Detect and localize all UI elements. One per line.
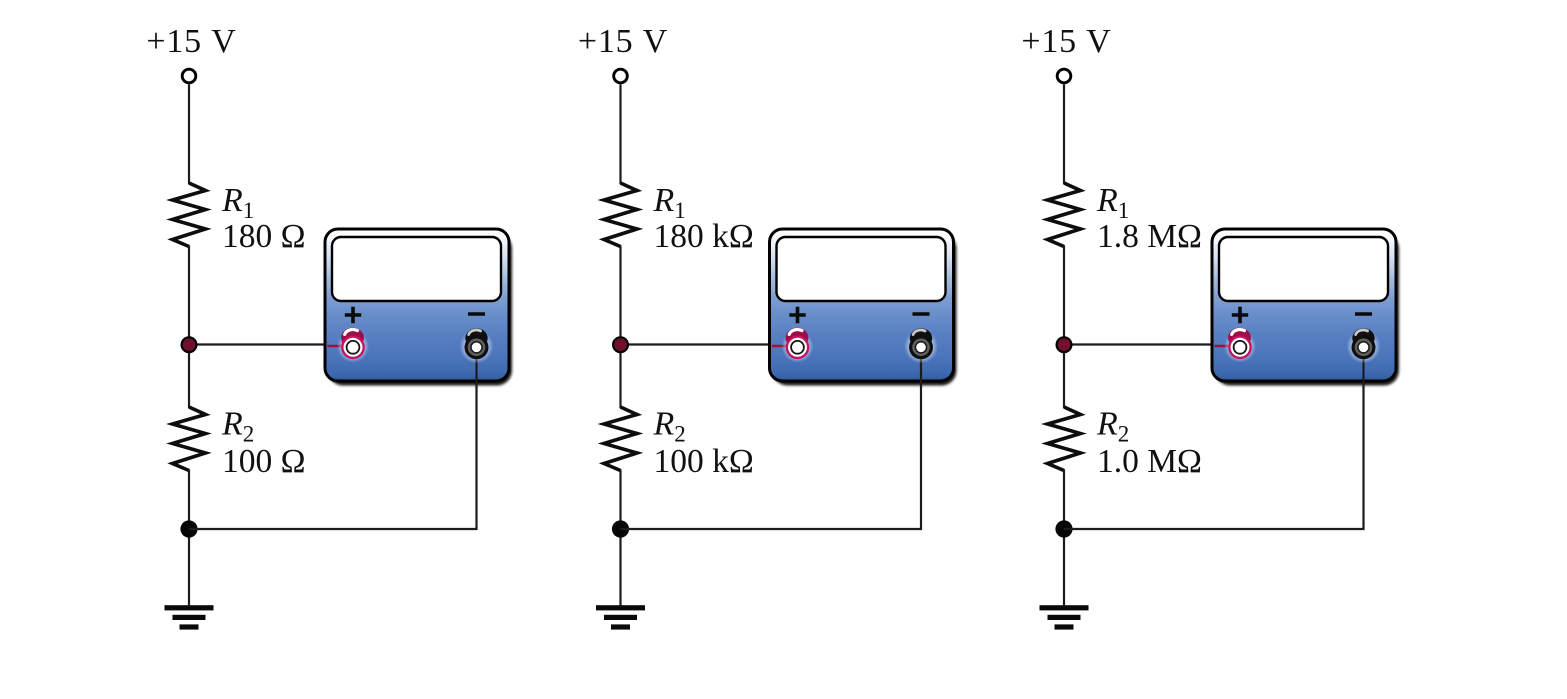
wire ground return, voltmeter minus lead to ground node (circuit 1) xyxy=(189,350,477,529)
wire R1 to node A (circuit 3) xyxy=(1063,246,1065,345)
wire node A into plus terminal, red lead (circuit 2) xyxy=(772,345,798,347)
svg-text:100 Ω: 100 Ω xyxy=(222,443,306,480)
junction ground node (circuit 3) xyxy=(1055,520,1072,537)
terminal +15 V (circuit 2) xyxy=(614,69,628,83)
wire node A to R2 (circuit 2) xyxy=(619,345,621,408)
voltmeter U2 plus marking xyxy=(789,307,805,323)
wire R1 to node A (circuit 1) xyxy=(188,246,190,345)
wire ground node to ground symbol (circuit 3) xyxy=(1063,529,1065,608)
junction ground node (circuit 1) xyxy=(180,520,197,537)
wire node A to voltmeter (circuit 3) xyxy=(1064,343,1214,345)
terminal +15 V (circuit 1) xyxy=(182,69,196,83)
wire R2 to ground node (circuit 2) xyxy=(619,470,621,530)
ground (circuit 1) xyxy=(165,605,214,629)
voltmeter U2 minus terminal (black jack) xyxy=(904,328,938,363)
voltmeter U3 display xyxy=(1219,237,1388,301)
resistor R2 (circuit 1) xyxy=(173,407,206,471)
junction node A (circuit 1) xyxy=(182,337,197,352)
svg-text:+15 V: +15 V xyxy=(1021,23,1111,60)
voltmeter U1 body xyxy=(325,229,509,381)
resistor R1 (circuit 3) xyxy=(1048,183,1081,247)
voltmeter U3 body xyxy=(1212,229,1396,381)
wire node A to voltmeter (circuit 2) xyxy=(621,343,772,345)
wire ground return, voltmeter minus lead to ground node (circuit 3) xyxy=(1064,350,1364,529)
voltmeter U3 minus terminal (black jack) xyxy=(1347,328,1381,363)
voltmeter U3 plus terminal (red jack) xyxy=(1224,328,1256,363)
wire R2 to ground node (circuit 1) xyxy=(188,470,190,530)
svg-text:+15 V: +15 V xyxy=(146,23,236,60)
terminal +15 V (circuit 3) xyxy=(1057,69,1071,83)
svg-text:1.8 MΩ: 1.8 MΩ xyxy=(1097,218,1202,255)
ground (circuit 3) xyxy=(1040,605,1089,629)
voltmeter U2 drop shadow xyxy=(773,234,957,386)
wire node A to voltmeter (circuit 1) xyxy=(189,343,327,345)
voltmeter U2 display xyxy=(777,237,946,301)
voltmeter U3 drop shadow xyxy=(1215,234,1399,386)
resistor R2 (circuit 2) xyxy=(604,407,637,471)
voltmeter U1 plus terminal (red jack) xyxy=(337,328,369,363)
voltmeter U1 minus terminal (black jack) xyxy=(460,328,494,363)
svg-text:180 kΩ: 180 kΩ xyxy=(654,218,754,255)
wire node A to R2 (circuit 1) xyxy=(188,345,190,408)
resistor R1 (circuit 2) xyxy=(604,183,637,247)
ground (circuit 2) xyxy=(596,605,645,629)
voltmeter U2 plus terminal (red jack) xyxy=(782,328,814,363)
wire node A to R2 (circuit 3) xyxy=(1063,345,1065,408)
wire node A into plus terminal, red lead (circuit 3) xyxy=(1215,345,1241,347)
wire ground node to ground symbol (circuit 1) xyxy=(188,529,190,608)
svg-text:1.0 MΩ: 1.0 MΩ xyxy=(1097,443,1202,480)
junction node A (circuit 2) xyxy=(613,337,628,352)
wire supply terminal to R1 (circuit 1) xyxy=(188,84,190,184)
voltmeter U3 plus marking xyxy=(1232,307,1248,323)
wire ground return, voltmeter minus lead to ground node (circuit 2) xyxy=(621,350,922,529)
voltmeter U1 drop shadow xyxy=(328,234,512,386)
wire node A into plus terminal, red lead (circuit 1) xyxy=(328,345,354,347)
svg-text:180 Ω: 180 Ω xyxy=(222,218,306,255)
svg-text:+15 V: +15 V xyxy=(578,23,668,60)
svg-text:100 kΩ: 100 kΩ xyxy=(654,443,754,480)
wire R1 to node A (circuit 2) xyxy=(619,246,621,345)
wire supply terminal to R1 (circuit 2) xyxy=(619,84,621,184)
voltmeter U3 minus marking xyxy=(1355,312,1372,316)
wire supply terminal to R1 (circuit 3) xyxy=(1063,84,1065,184)
wire R2 to ground node (circuit 3) xyxy=(1063,470,1065,530)
wire ground node to ground symbol (circuit 2) xyxy=(619,529,621,608)
voltmeter U1 plus marking xyxy=(345,307,361,323)
junction node A (circuit 3) xyxy=(1057,337,1072,352)
junction ground node (circuit 2) xyxy=(612,520,629,537)
resistor R1 (circuit 1) xyxy=(173,183,206,247)
voltmeter U1 display xyxy=(332,237,501,301)
resistor R2 (circuit 3) xyxy=(1048,407,1081,471)
voltmeter U2 minus marking xyxy=(913,312,930,316)
voltmeter U2 body xyxy=(770,229,954,381)
voltmeter U1 minus marking xyxy=(468,312,485,316)
